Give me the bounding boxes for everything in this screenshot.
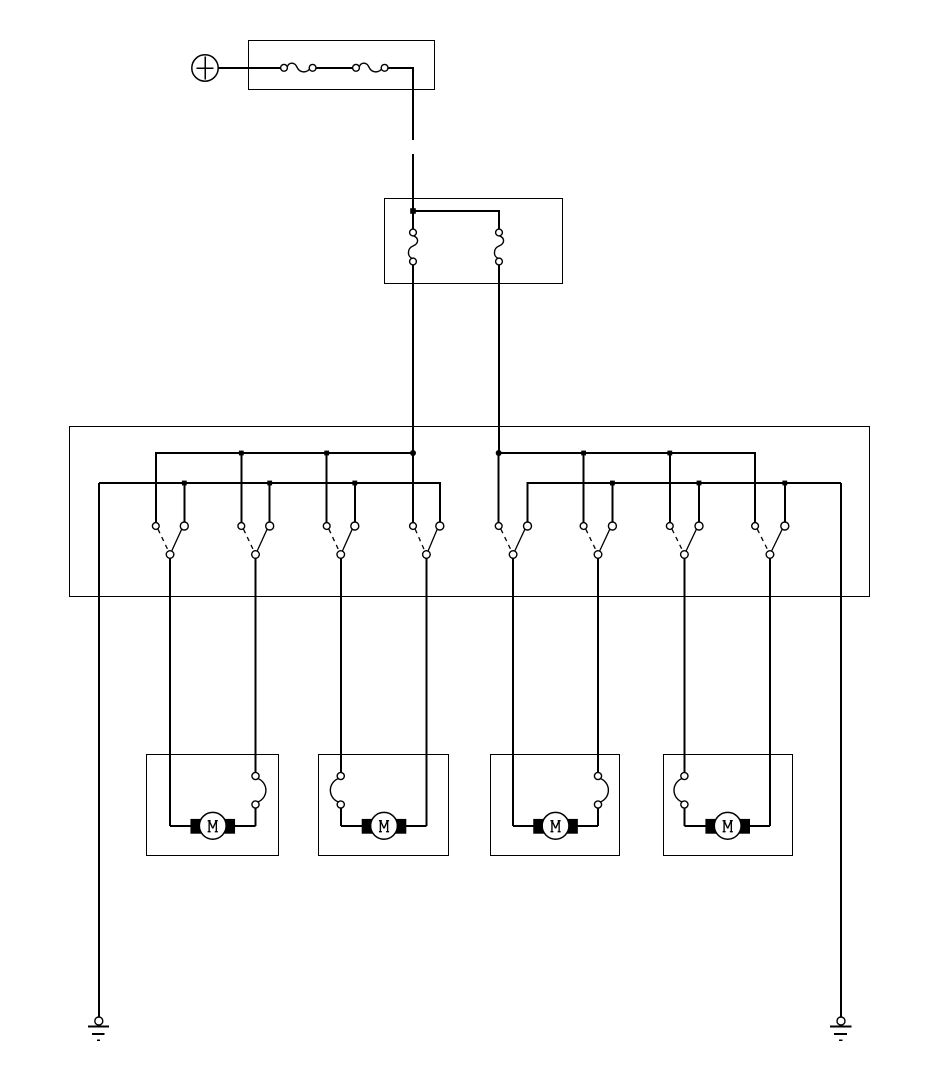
wire S1 to motor M1 left brush xyxy=(169,558,171,826)
wire bus2 to switch S6 right terminal xyxy=(611,483,613,522)
motor box 3 xyxy=(491,755,620,856)
node bus2 right junction b xyxy=(697,481,702,486)
wire S7 to breaker CB4 xyxy=(683,558,685,773)
wire F1 to switch box bus xyxy=(412,265,414,453)
wire bus1 to switch S4 left terminal xyxy=(412,453,414,522)
bus wire right lower xyxy=(528,483,842,522)
motor M4 xyxy=(684,812,770,839)
fusible link FL2 xyxy=(353,63,388,72)
wire bus2 to switch S8 right terminal xyxy=(784,483,786,522)
switch S8 xyxy=(752,522,789,558)
bus wire left upper xyxy=(156,453,413,522)
node bus1 right junction b xyxy=(667,451,672,456)
node bus2 left junction a xyxy=(182,481,187,486)
wire S6 to breaker CB3 xyxy=(597,558,599,773)
wire to right ground xyxy=(840,483,842,1017)
node junction J1 xyxy=(410,208,416,214)
motor box 2 xyxy=(319,755,449,856)
wire S8 to motor M4 right brush xyxy=(769,558,771,826)
bus wire right upper xyxy=(499,453,755,522)
motor M3 xyxy=(513,812,598,839)
motor M2 xyxy=(341,812,427,839)
node bus1 left end xyxy=(410,450,416,456)
wire bus1 to switch S3 left terminal xyxy=(326,453,328,522)
power window master switch box xyxy=(70,427,870,597)
switch S1 xyxy=(152,522,188,558)
wire CB3 to motor M3 right brush xyxy=(597,808,599,826)
bus wire left lower xyxy=(99,483,440,522)
wire bus2 to switch S3 right terminal xyxy=(354,483,356,522)
wire J1 to right branch xyxy=(413,211,499,229)
node bus1 right junction a xyxy=(581,451,586,456)
circuit breaker CB4 xyxy=(674,772,688,808)
wire CB1 to motor M1 right brush xyxy=(255,808,257,826)
ground right xyxy=(830,1017,851,1040)
wire bus2 to switch S1 right terminal xyxy=(183,483,185,522)
motor box 1 xyxy=(147,755,279,856)
wire S5 to motor M3 left brush xyxy=(512,558,514,826)
fuse box (fusible link block) xyxy=(249,41,435,90)
wire continuation after break xyxy=(412,154,414,211)
node bus2 left junction c xyxy=(352,481,357,486)
wire S4 to motor M2 right brush xyxy=(425,558,427,826)
switch S7 xyxy=(666,522,703,558)
node bus1 left junction b xyxy=(324,451,329,456)
switch S3 xyxy=(323,522,358,558)
circuit breaker CB2 xyxy=(330,772,344,808)
wire to left ground xyxy=(98,483,100,1017)
wire battery to fuse box xyxy=(218,67,280,69)
ground left xyxy=(88,1017,109,1040)
wire bus1 to switch S5 left terminal xyxy=(498,453,500,522)
fuse F2 (vertical) xyxy=(494,229,503,265)
relay box xyxy=(385,199,563,284)
switch S5 xyxy=(495,522,531,558)
node bus1 right end xyxy=(496,450,502,456)
switch S2 xyxy=(238,522,274,558)
wire J1 down to fuse F1 xyxy=(412,211,414,229)
node bus1 left junction a xyxy=(239,451,244,456)
wire S2 to breaker CB1 xyxy=(255,558,257,773)
wire between fusible links xyxy=(316,67,352,69)
fuse F1 (vertical) xyxy=(408,229,417,265)
motor M1 xyxy=(170,812,255,839)
wire CB2 to motor M2 left brush xyxy=(340,808,342,826)
wire CB4 to motor M4 left brush xyxy=(683,808,685,826)
node bus2 left junction b xyxy=(267,481,272,486)
wire F2 to switch box bus xyxy=(498,265,500,453)
switch S4 xyxy=(410,522,444,558)
wire FL2 to down corner xyxy=(388,68,413,140)
fusible link FL1 xyxy=(281,63,316,72)
battery B+ terminal xyxy=(192,55,218,81)
wire S3 to breaker CB2 xyxy=(340,558,342,773)
circuit breaker CB1 xyxy=(252,772,266,808)
node bus2 right junction c xyxy=(782,481,787,486)
circuit breaker CB3 xyxy=(594,772,608,808)
motor box 4 xyxy=(664,755,793,856)
wire bus2 to switch S7 right terminal xyxy=(698,483,700,522)
wire bus1 to switch S2 left terminal xyxy=(240,453,242,522)
wire bus1 to switch S7 left terminal xyxy=(669,453,671,522)
wire bus2 to switch S2 right terminal xyxy=(269,483,271,522)
switch S6 xyxy=(580,522,616,558)
wire bus1 to switch S6 left terminal xyxy=(583,453,585,522)
node bus2 right junction a xyxy=(610,481,615,486)
